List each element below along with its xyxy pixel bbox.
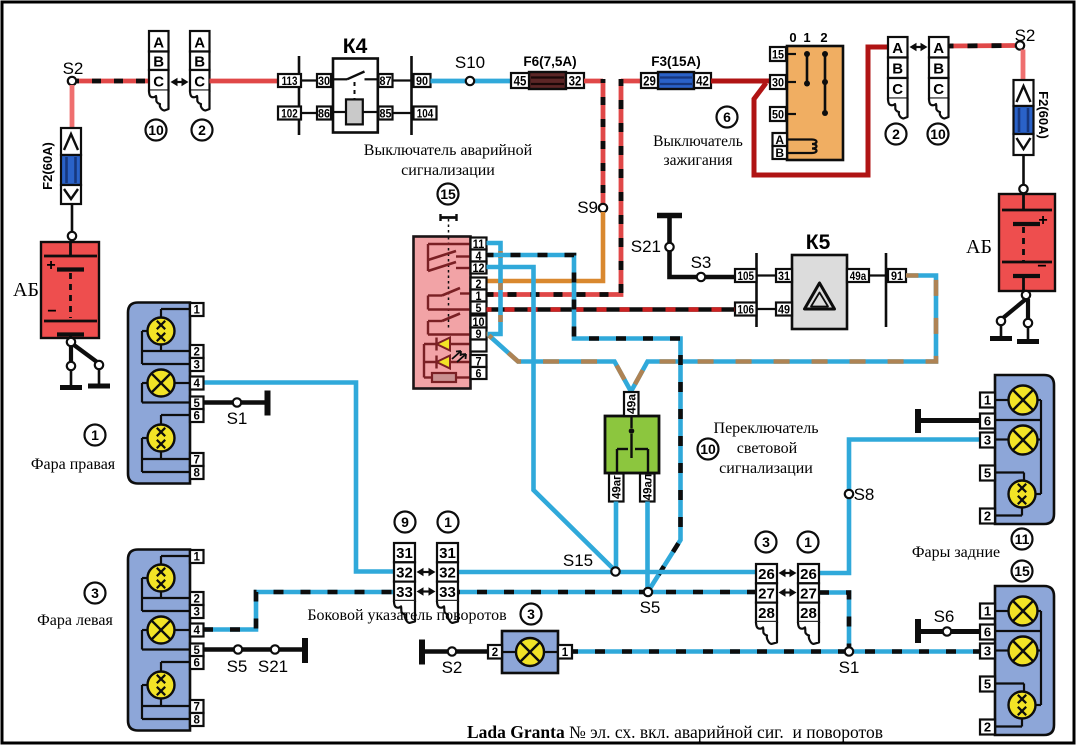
hazard pin 11 — [471, 238, 487, 250]
ground bar lower rear lamp — [915, 619, 921, 643]
hazard LED D1 — [424, 343, 471, 345]
svg-text:S21: S21 — [631, 237, 661, 256]
hazard internal left rail — [423, 344, 425, 378]
left headlight lamp 1 (dual filament) — [148, 565, 175, 592]
svg-text:10: 10 — [148, 122, 164, 138]
wire left headlight pin5 to ground (black) — [204, 647, 303, 652]
svg-text:6: 6 — [723, 109, 731, 125]
svg-text:2: 2 — [984, 720, 991, 735]
wire fuse F2 to battery — [71, 204, 74, 231]
rear lamp upper pin 3 — [980, 433, 995, 448]
right headlight pin 4 — [190, 377, 204, 390]
hazard pin blank — [471, 340, 487, 352]
svg-text:90: 90 — [416, 75, 428, 88]
svg-text:29: 29 — [643, 74, 656, 89]
hazard pin 5 — [471, 302, 487, 314]
svg-text:S5: S5 — [227, 657, 248, 676]
hazard resistor — [424, 376, 432, 378]
svg-text:2: 2 — [198, 122, 206, 138]
ignition pin 15 — [770, 47, 786, 61]
svg-text:F6(7,5А): F6(7,5А) — [523, 54, 576, 69]
svg-text:3: 3 — [91, 585, 99, 601]
svg-text:S6: S6 — [934, 607, 955, 626]
svg-text:АБ: АБ — [966, 236, 992, 258]
svg-text:B: B — [933, 61, 944, 78]
svg-text:F2(60A): F2(60A) — [1036, 91, 1051, 139]
wire F3 42 to ignition pin 30 and loop to connector A (dark red) — [711, 79, 770, 84]
svg-text:S8: S8 — [854, 485, 875, 504]
wire F3 29 down to hazard pin 1 (red/black dashed) — [621, 79, 641, 84]
left headlight pin 4 — [190, 624, 204, 637]
svg-text:31: 31 — [396, 545, 413, 562]
right headlight pin 8 — [190, 466, 204, 479]
svg-text:33: 33 — [439, 584, 456, 601]
circled 10 label — [146, 120, 167, 141]
svg-text:A: A — [775, 133, 784, 147]
svg-text:2: 2 — [194, 347, 200, 359]
wire 49ag down to S15 (blue) — [614, 502, 619, 569]
ground battery-right leg2 — [1027, 327, 1030, 340]
svg-text:91: 91 — [891, 270, 904, 283]
left headlight pin 1 — [190, 550, 204, 563]
turn switch body — [605, 416, 659, 473]
ignition coil A-B — [787, 140, 817, 154]
connector X8 26/27/28 right — [798, 564, 819, 583]
ground battery-left leg1 — [70, 370, 73, 386]
right headlight internal wiring — [161, 308, 190, 310]
svg-text:8: 8 — [194, 468, 201, 480]
circled 9 label — [395, 512, 416, 533]
svg-text:Выключатель: Выключатель — [653, 133, 743, 150]
connector X3 (A/B/C) right pair left — [888, 37, 908, 58]
wire S2 down to fuse F2 — [70, 85, 75, 129]
rear lamp lower pin 1 — [980, 604, 995, 619]
wire S2 right down to fuse F2 — [1021, 50, 1026, 82]
svg-text:сигнализации: сигнализации — [401, 162, 495, 179]
svg-text:31: 31 — [439, 545, 456, 562]
svg-text:Фары задние: Фары задние — [912, 544, 1000, 561]
ignition pin B — [773, 146, 788, 159]
turn switch pin 49a — [624, 392, 639, 416]
circled 10 label right — [928, 124, 949, 145]
rear lamp lower pin 3 — [980, 644, 995, 659]
svg-text:105: 105 — [738, 270, 754, 283]
left headlight body — [128, 550, 190, 731]
wire left headlight pin4 to 33 (blue/black dashed) — [203, 592, 394, 630]
svg-text:1: 1 — [984, 604, 991, 619]
svg-text:C: C — [892, 81, 903, 98]
svg-text:86: 86 — [318, 108, 330, 121]
svg-text:Боковой указатель поворотов: Боковой указатель поворотов — [307, 607, 507, 624]
rear lamp lower pin 2 — [980, 720, 995, 735]
svg-text:6: 6 — [984, 625, 991, 640]
svg-text:S1: S1 — [839, 658, 860, 677]
svg-text:3: 3 — [984, 644, 991, 659]
right headlight pin 2 — [190, 345, 204, 358]
svg-text:31: 31 — [778, 270, 791, 283]
rear lamp lower internal wiring — [995, 610, 1010, 612]
svg-text:26: 26 — [800, 566, 817, 583]
svg-text:15: 15 — [1014, 563, 1030, 579]
wire hazard pin 5 to K5 106 (black/red dashed) — [487, 307, 736, 312]
K4 left connector bar — [298, 56, 301, 135]
svg-text:28: 28 — [800, 605, 817, 622]
wire stubs K4 bottom row — [278, 112, 318, 114]
svg-text:49аг: 49аг — [612, 475, 624, 499]
ignition pin 30 — [770, 75, 786, 89]
rear lamp upper body — [995, 375, 1054, 524]
svg-text:S3: S3 — [691, 253, 712, 272]
svg-text:50: 50 — [772, 109, 784, 122]
svg-text:К4: К4 — [343, 35, 368, 58]
K4 coil — [346, 99, 363, 124]
svg-text:S2: S2 — [63, 59, 84, 78]
hazard pin 4 — [471, 250, 487, 262]
ground battery-right leg1 — [1000, 325, 1003, 337]
svg-text:АБ: АБ — [13, 279, 39, 301]
arrow between A pins right pair — [913, 46, 925, 48]
K4 pin 104 — [414, 107, 437, 120]
rear lamp upper internal wiring — [995, 399, 1010, 401]
svg-text:B: B — [194, 54, 205, 71]
rear lamp upper lamp 2 (turn signal) — [1009, 426, 1038, 455]
wire ground to rear lamp pin6 (black) — [921, 418, 980, 423]
svg-text:F3(15А): F3(15А) — [651, 54, 701, 69]
rear lamp lower body — [995, 586, 1054, 735]
svg-text:106: 106 — [738, 303, 754, 316]
svg-text:28: 28 — [758, 605, 775, 622]
svg-text:1: 1 — [562, 647, 569, 659]
svg-text:+: + — [1038, 212, 1047, 229]
svg-text:Фара левая: Фара левая — [37, 612, 113, 629]
svg-text:49ал: 49ал — [643, 474, 655, 501]
svg-text:102: 102 — [281, 107, 297, 120]
ignition contact line 1 — [806, 54, 809, 84]
svg-text:9: 9 — [401, 514, 409, 530]
svg-text:27: 27 — [758, 585, 775, 602]
svg-text:S15: S15 — [563, 551, 593, 570]
svg-text:7: 7 — [194, 702, 200, 714]
wire S6 ground to lower rear pin6 (black) — [921, 629, 980, 634]
rear lamp upper pin 6 — [980, 414, 995, 429]
svg-text:Переключатель: Переключатель — [714, 420, 819, 437]
wire hazard pin 4 (blue/black dashed) to S5 — [487, 255, 681, 590]
circled 2 label — [192, 120, 213, 141]
svg-text:6: 6 — [194, 658, 200, 670]
svg-text:4: 4 — [194, 625, 201, 637]
K5 hazard triangle symbol — [805, 283, 835, 309]
right headlight lamp 2 (turn signal) — [148, 370, 175, 397]
svg-text:15: 15 — [772, 49, 785, 62]
connector X5 31/32/33 left — [394, 543, 415, 562]
K4 body — [333, 59, 378, 133]
svg-text:3: 3 — [527, 606, 535, 622]
right headlight pin 3 — [190, 358, 204, 371]
K4 pin 87 — [379, 74, 393, 87]
K4 pin 90 — [414, 74, 431, 87]
circled 1 label — [438, 512, 459, 533]
svg-text:C: C — [933, 81, 944, 98]
circled 3 label — [756, 532, 777, 553]
wire 32-32 to 26-26 through S15 (blue) — [458, 570, 756, 575]
svg-text:Lada Granta № эл. сх. вкл. ава: Lada Granta № эл. сх. вкл. аварийной сиг… — [467, 722, 883, 742]
svg-text:1: 1 — [194, 552, 201, 564]
svg-text:Выключатель аварийной: Выключатель аварийной — [364, 142, 533, 159]
ignition contact line 2 — [824, 54, 827, 113]
svg-text:30: 30 — [772, 77, 784, 90]
turn switch pin 49al — [640, 474, 655, 502]
svg-text:1: 1 — [91, 427, 99, 443]
svg-text:104: 104 — [417, 107, 434, 120]
hazard pin 2 — [471, 278, 487, 290]
svg-text:10: 10 — [700, 441, 716, 457]
circled 6 label — [717, 107, 738, 128]
K5 pin 106 — [735, 303, 757, 316]
turn switch pin 49ag — [609, 474, 624, 502]
arrow between 27 pins — [782, 591, 794, 593]
side indicator ground bar — [419, 640, 425, 665]
side indicator body — [502, 631, 558, 673]
wire 33-33 to 27 through S5 (blue/black dashed) — [458, 590, 756, 595]
wire hazard pin 12 (blue) to S15 — [487, 267, 616, 571]
K5 body — [792, 255, 847, 329]
left headlight pin 8 — [190, 713, 204, 726]
svg-text:сигнализации: сигнализации — [719, 460, 813, 477]
svg-text:1: 1 — [194, 305, 201, 317]
svg-text:2: 2 — [194, 594, 200, 606]
circled 3 label headlight — [85, 583, 106, 604]
svg-text:3: 3 — [762, 534, 770, 550]
svg-text:S5: S5 — [640, 598, 661, 617]
K4 pin 30 — [317, 74, 331, 87]
svg-text:A: A — [153, 35, 164, 52]
svg-text:+: + — [46, 257, 55, 274]
K5 pin 49 — [776, 303, 792, 316]
wire F6 32 to corner and down to S9 (red/black dashed) — [584, 79, 603, 84]
hazard pin 1 — [471, 290, 487, 302]
svg-text:15: 15 — [440, 186, 456, 202]
svg-text:2: 2 — [820, 30, 827, 45]
circled 1 label headlight — [85, 425, 106, 446]
ground bar upper rear lamp — [915, 409, 921, 433]
wire fuse F2 right to battery — [1022, 155, 1025, 185]
K5 pin 49a — [847, 269, 869, 282]
wire stubs K4 top row — [278, 79, 318, 81]
svg-text:8: 8 — [194, 715, 201, 727]
chassis tie above hazard switch — [440, 216, 457, 219]
wire S2 to connector C (red/black dashed) — [76, 79, 149, 84]
svg-text:1: 1 — [984, 393, 991, 408]
K5 pin 105 — [735, 269, 757, 282]
hazard pin 7 — [471, 355, 487, 367]
K5 left connector bar — [755, 253, 758, 327]
arrow between 26 pins — [782, 572, 794, 574]
rear lamp lower pin 6 — [980, 625, 995, 640]
svg-text:45: 45 — [514, 74, 527, 89]
side indicator pin 1 — [558, 645, 572, 659]
K4 pin 102 — [278, 107, 301, 120]
rear lamp lower pin 5 — [980, 677, 995, 692]
hazard internal contact group 3 — [428, 320, 442, 322]
svg-text:S10: S10 — [455, 53, 485, 72]
svg-text:S21: S21 — [258, 657, 288, 676]
right headlight body — [128, 303, 190, 484]
battery left terminals and legs — [67, 338, 75, 346]
wire connector C to K4 pin 113 — [210, 79, 279, 84]
svg-text:5: 5 — [984, 466, 991, 481]
connector X6 31/32/33 right — [437, 543, 458, 562]
wire S21 to S3 to K5 105 — [670, 251, 698, 277]
right headlight lamp 3 (dual filament) — [148, 425, 175, 452]
wire S9 to hazard pin 2 (orange) — [487, 212, 604, 281]
wire 49al down to S5 (blue) — [645, 502, 650, 589]
wire right headlight pin4 to 32 (blue) — [203, 383, 394, 572]
svg-text:32: 32 — [439, 564, 456, 581]
svg-text:27: 27 — [800, 585, 817, 602]
svg-text:−: − — [47, 303, 56, 320]
svg-text:85: 85 — [379, 108, 392, 121]
fuse F2(60A) right — [1014, 80, 1034, 106]
circled 2 label right — [886, 124, 907, 145]
svg-text:6: 6 — [984, 414, 991, 429]
svg-text:1: 1 — [804, 534, 812, 550]
svg-text:6: 6 — [475, 368, 481, 381]
K4 pin 86 — [317, 107, 331, 120]
left headlight pin 2 — [190, 592, 204, 605]
rear lamp upper pin 2 — [980, 509, 995, 524]
svg-text:2: 2 — [492, 647, 498, 659]
rear lamp upper lamp 3 (dual filament) — [1009, 481, 1036, 508]
svg-text:10: 10 — [930, 126, 946, 142]
wire side indicator to S1 to rear pin3 (blue/black dashed) — [572, 649, 980, 654]
svg-text:30: 30 — [318, 75, 330, 88]
svg-text:3: 3 — [984, 433, 991, 448]
ignition switch body — [787, 46, 843, 160]
svg-text:3: 3 — [194, 360, 200, 372]
svg-text:32: 32 — [569, 74, 582, 89]
hazard pin 12 — [471, 262, 487, 274]
ignition pin 50 — [770, 107, 786, 121]
left headlight pin 7 — [190, 700, 204, 713]
svg-text:F2(60A): F2(60A) — [40, 142, 55, 190]
K5 pin 91 — [888, 269, 906, 282]
K4 pin 113 — [278, 74, 301, 87]
hazard pin 6 — [471, 367, 487, 379]
svg-text:12: 12 — [472, 262, 484, 275]
hazard pin 9 — [471, 328, 487, 340]
connector X2 (A/B/C) right of pair — [190, 31, 210, 52]
svg-text:32: 32 — [396, 564, 413, 581]
wire 27-27 down to S1 (blue/black dashed) — [819, 593, 849, 649]
svg-text:6: 6 — [194, 411, 200, 423]
right headlight pin 5 — [190, 397, 204, 410]
turn switch internals — [630, 416, 632, 428]
svg-text:A: A — [194, 35, 205, 52]
wire hazard 9 to turn-signal switch to K5 91 (blue/brown dashed) — [489, 276, 936, 392]
rear lamp lower lamp 3 (dual filament) — [1009, 692, 1036, 719]
circled 15 label rear — [1012, 561, 1033, 582]
arrow between 32 pins — [420, 571, 433, 573]
svg-text:11: 11 — [1015, 531, 1030, 547]
svg-text:−: − — [1037, 258, 1046, 275]
left headlight lamp 2 (turn signal) — [148, 617, 175, 644]
circled 15 label hazard — [438, 184, 459, 205]
svg-text:S2: S2 — [442, 658, 463, 677]
right headlight pin 6 — [190, 409, 204, 422]
K5 right connector bar — [885, 253, 888, 327]
svg-text:87: 87 — [379, 75, 391, 88]
rear lamp lower lamp 2 (turn signal) — [1009, 637, 1038, 666]
wire hazard pins 11-9 link (blue) — [487, 243, 501, 334]
wire connector A to S2 right (red/black dashed) — [949, 43, 1016, 48]
svg-text:2: 2 — [984, 509, 991, 524]
K4 pin 85 — [379, 107, 393, 120]
side indicator pin 2 — [488, 645, 502, 659]
svg-text:0: 0 — [789, 30, 796, 45]
svg-text:A: A — [892, 40, 903, 57]
rear lamp upper lamp 1 — [1009, 386, 1038, 415]
svg-text:1: 1 — [803, 30, 810, 45]
svg-text:4: 4 — [194, 378, 201, 390]
hazard pin 10 — [471, 316, 487, 328]
wire 26 to S8 to rear lamp pin3 (blue) — [819, 440, 980, 574]
K4 right connector bar — [410, 56, 413, 135]
svg-text:3: 3 — [194, 607, 200, 619]
left headlight internal wiring — [161, 555, 190, 557]
right headlight lamp 1 (dual filament) — [148, 318, 175, 345]
battery right terminals and legs — [1022, 291, 1030, 299]
rear lamp upper pin 5 — [980, 466, 995, 481]
connector X1 (A/B/C) left of pair — [149, 31, 169, 52]
svg-text:световой: световой — [737, 440, 798, 457]
svg-text:1: 1 — [444, 514, 452, 530]
K5 pin 31 — [776, 269, 792, 282]
circled 10 label switch — [698, 439, 719, 460]
svg-text:Фара правая: Фара правая — [31, 456, 116, 473]
left headlight pin 3 — [190, 605, 204, 618]
fuse F2(60A) left — [61, 128, 81, 155]
rear lamp lower lamp 1 — [1009, 597, 1038, 626]
ignition pin A — [773, 133, 788, 146]
side indicator lamp — [516, 638, 544, 666]
svg-text:5: 5 — [475, 302, 482, 315]
svg-text:2: 2 — [892, 126, 900, 142]
hazard LED arrows — [452, 351, 466, 362]
svg-text:113: 113 — [282, 75, 298, 88]
svg-text:A: A — [933, 40, 944, 57]
svg-text:49а: 49а — [850, 270, 867, 283]
svg-text:5: 5 — [984, 677, 991, 692]
left headlight pin 5 — [190, 644, 204, 657]
right headlight pin 1 — [190, 303, 204, 316]
wire K4 90 to fuse F6 (blue) — [431, 79, 512, 84]
ignition pin ticks — [787, 53, 796, 55]
wire ground to side indicator pin2 (black) — [425, 649, 488, 654]
rear lamp upper pin 1 — [980, 393, 995, 408]
svg-text:зажигания: зажигания — [664, 152, 733, 169]
svg-text:7: 7 — [194, 455, 200, 467]
left headlight pin 6 — [190, 656, 204, 669]
arrow between C pins — [174, 81, 186, 83]
svg-text:B: B — [892, 61, 903, 78]
svg-text:33: 33 — [396, 584, 413, 601]
svg-text:S9: S9 — [577, 198, 598, 217]
svg-text:C: C — [153, 74, 164, 91]
svg-text:B: B — [153, 54, 164, 71]
hazard LED D2 — [424, 361, 471, 363]
circled 3 label side — [521, 604, 542, 625]
K4 switch contact — [333, 78, 347, 80]
